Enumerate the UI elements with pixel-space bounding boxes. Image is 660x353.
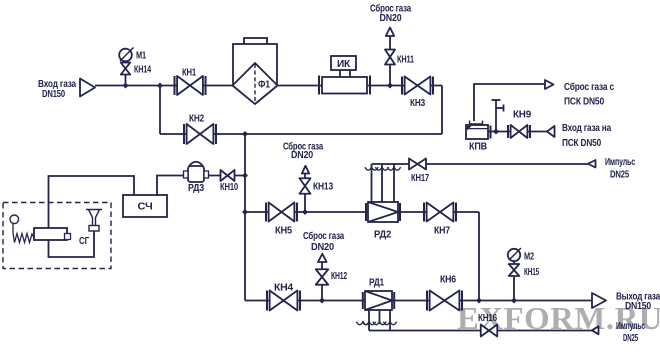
svg-text:Ф1: Ф1	[258, 80, 271, 91]
svg-text:Сброс газа с: Сброс газа с	[564, 81, 615, 93]
node KN11 riser junction	[387, 83, 393, 89]
svg-text:ПСК DN50: ПСК DN50	[562, 138, 602, 149]
valve KN5	[269, 203, 295, 222]
wire SCH riser to RD3 line	[157, 176, 184, 196]
discharge arrow PSK	[545, 80, 554, 89]
wire KPV vent side bar	[503, 105, 505, 112]
odorizer cylinder	[34, 228, 67, 240]
vent arrow top	[386, 28, 394, 37]
svg-text:КН5: КН5	[275, 226, 293, 237]
outlet flow arrow	[592, 293, 606, 308]
wire KPV vent cap	[492, 99, 501, 101]
node RD2 branch outlet junction	[476, 298, 482, 304]
valve KN9	[511, 125, 528, 138]
svg-text:КН7: КН7	[434, 226, 451, 237]
wire KN11 vent riser	[389, 35, 391, 86]
svg-text:СГ: СГ	[79, 236, 89, 247]
KPV body	[466, 125, 488, 139]
svg-text:КН16: КН16	[478, 313, 498, 324]
wire PSK discharge line	[474, 84, 545, 121]
filter F1 body	[233, 44, 277, 86]
valve KN14	[121, 63, 131, 75]
PSK inlet arrow	[547, 126, 555, 137]
wire main inlet line y=85	[95, 85, 442, 87]
wire RD2 impulse hooks	[365, 167, 401, 170]
KPV right flange	[490, 126, 492, 139]
odorizer lever circle	[10, 215, 19, 224]
wire branch down from inlet at x=160	[159, 86, 161, 135]
valve KN6	[430, 291, 460, 311]
svg-text:КН9: КН9	[513, 110, 532, 121]
odorizer spring	[13, 224, 34, 243]
svg-text:DN25: DN25	[610, 170, 629, 181]
svg-text:КН6: КН6	[440, 275, 457, 286]
svg-text:РД3: РД3	[188, 183, 205, 194]
valve KN1	[177, 76, 203, 95]
svg-text:Импульс: Импульс	[616, 321, 645, 332]
meter IK neck	[339, 70, 341, 77]
impulse arrow top	[588, 160, 596, 168]
node KN12 branch junction	[319, 298, 325, 304]
wire right downcomer after KN3	[441, 86, 443, 135]
impulse arrow bottom	[592, 326, 599, 334]
wire RD1 impulse leg 1	[368, 310, 370, 331]
valve KN2	[187, 124, 214, 144]
meter IK left flange	[318, 76, 320, 95]
svg-text:М1: М1	[136, 51, 146, 62]
svg-text:DN20: DN20	[380, 13, 403, 24]
wire downcomer RD2 branch to outlet	[478, 212, 480, 301]
vent arrow KN13	[302, 166, 309, 174]
valve KN11	[385, 50, 395, 65]
valve KN13	[300, 178, 311, 194]
svg-text:ПСК DN50: ПСК DN50	[564, 97, 605, 108]
wire RD3/KN10 line	[184, 175, 245, 177]
svg-text:РД2: РД2	[374, 230, 392, 241]
svg-text:Импульс: Импульс	[605, 157, 635, 168]
svg-text:КН15: КН15	[524, 267, 539, 278]
manometer M1	[119, 49, 132, 62]
valve KN12	[316, 269, 329, 285]
valve KN10	[221, 170, 235, 181]
node RD3 line junction	[242, 173, 248, 179]
wire main downcomer x=245	[244, 134, 246, 301]
wire M1 gauge stem	[125, 55, 127, 86]
svg-text:DN20: DN20	[291, 150, 314, 161]
wire M2 gauge stem	[513, 255, 515, 301]
manometer M2	[508, 249, 520, 261]
filter F1 dashed axis	[254, 64, 256, 103]
svg-text:СЧ: СЧ	[138, 202, 153, 213]
wire KN4/outlet line y=300.5	[245, 300, 592, 302]
wire RD1 impulse line y=330.5	[369, 330, 592, 332]
regulator RD3	[189, 162, 203, 166]
svg-text:КН1: КН1	[182, 68, 196, 79]
valve KN17	[409, 159, 426, 170]
counter SCH	[123, 195, 167, 217]
wire KN13 vent riser	[304, 166, 306, 212]
svg-text:DN150: DN150	[625, 301, 652, 312]
svg-text:ИК: ИК	[337, 59, 351, 70]
wire KN5 line y=212	[245, 211, 479, 213]
wire RD1 impulse leg 2	[379, 310, 381, 324]
wire RD1 impulse leg 3	[389, 310, 391, 331]
node KN13 branch junction	[302, 209, 308, 215]
svg-text:М2: М2	[524, 252, 534, 263]
KPV inlet cup	[470, 121, 483, 125]
wire RD1 impulse hooks	[356, 322, 396, 325]
filter F1 diamond	[233, 63, 278, 104]
inlet flow arrow	[80, 79, 95, 97]
valve KN16	[481, 325, 498, 337]
svg-text:КН17: КН17	[411, 173, 429, 184]
svg-text:КПВ: КПВ	[469, 142, 487, 153]
node bypass/downcomer junction	[242, 131, 248, 137]
wire KN12 vent riser	[321, 255, 323, 301]
node KPV vent junction	[493, 129, 499, 135]
wire SG internal loop	[49, 231, 95, 257]
svg-text:КН14: КН14	[134, 65, 151, 76]
valve KN4	[270, 291, 298, 311]
node KN5 line junction	[242, 209, 248, 215]
vent arrow KN12	[318, 254, 327, 262]
valve KN3	[405, 77, 431, 95]
meter IK body	[322, 77, 367, 94]
regulator RD1	[365, 291, 392, 310]
node M2 stem junction	[511, 298, 517, 304]
svg-text:КН2: КН2	[189, 114, 205, 125]
svg-text:КН3: КН3	[410, 98, 426, 109]
svg-text:КН10: КН10	[220, 182, 238, 193]
wire RD2 impulse leg 1	[371, 164, 373, 202]
svg-text:КН11: КН11	[397, 55, 414, 66]
wire KPV vent stem	[495, 100, 497, 132]
meter IK right flange	[369, 76, 371, 95]
odorizer SG dashed box	[3, 203, 111, 269]
valve KN7	[427, 203, 454, 222]
filter F1 cap	[244, 38, 267, 45]
svg-text:DN25: DN25	[623, 333, 638, 344]
wire KPV vent side tap	[496, 107, 504, 109]
wire RD2 impulse leg 3	[393, 164, 395, 202]
svg-text:Сброс газа: Сброс газа	[303, 230, 344, 242]
wire SG to SCH feed	[49, 176, 135, 228]
valve KN15	[509, 264, 520, 276]
svg-text:КН4: КН4	[274, 283, 294, 294]
odorizer injector funnel	[86, 210, 102, 226]
meter IK head	[331, 56, 356, 70]
wire RD2 impulse line y=164	[372, 163, 589, 165]
node inlet branch junction	[157, 83, 163, 89]
wire RD2 impulse leg 2	[381, 164, 383, 202]
wire KPV outlet line	[488, 131, 547, 133]
node M1 stem junction	[123, 83, 129, 89]
svg-text:КН12: КН12	[331, 271, 347, 282]
svg-text:КН13: КН13	[313, 182, 334, 193]
svg-text:DN20: DN20	[311, 242, 335, 253]
svg-text:DN150: DN150	[42, 89, 65, 100]
wire bypass line y=134	[160, 133, 442, 135]
svg-text:РД1: РД1	[369, 278, 385, 289]
svg-text:Вход газа на: Вход газа на	[562, 123, 612, 134]
regulator RD2	[368, 202, 398, 222]
